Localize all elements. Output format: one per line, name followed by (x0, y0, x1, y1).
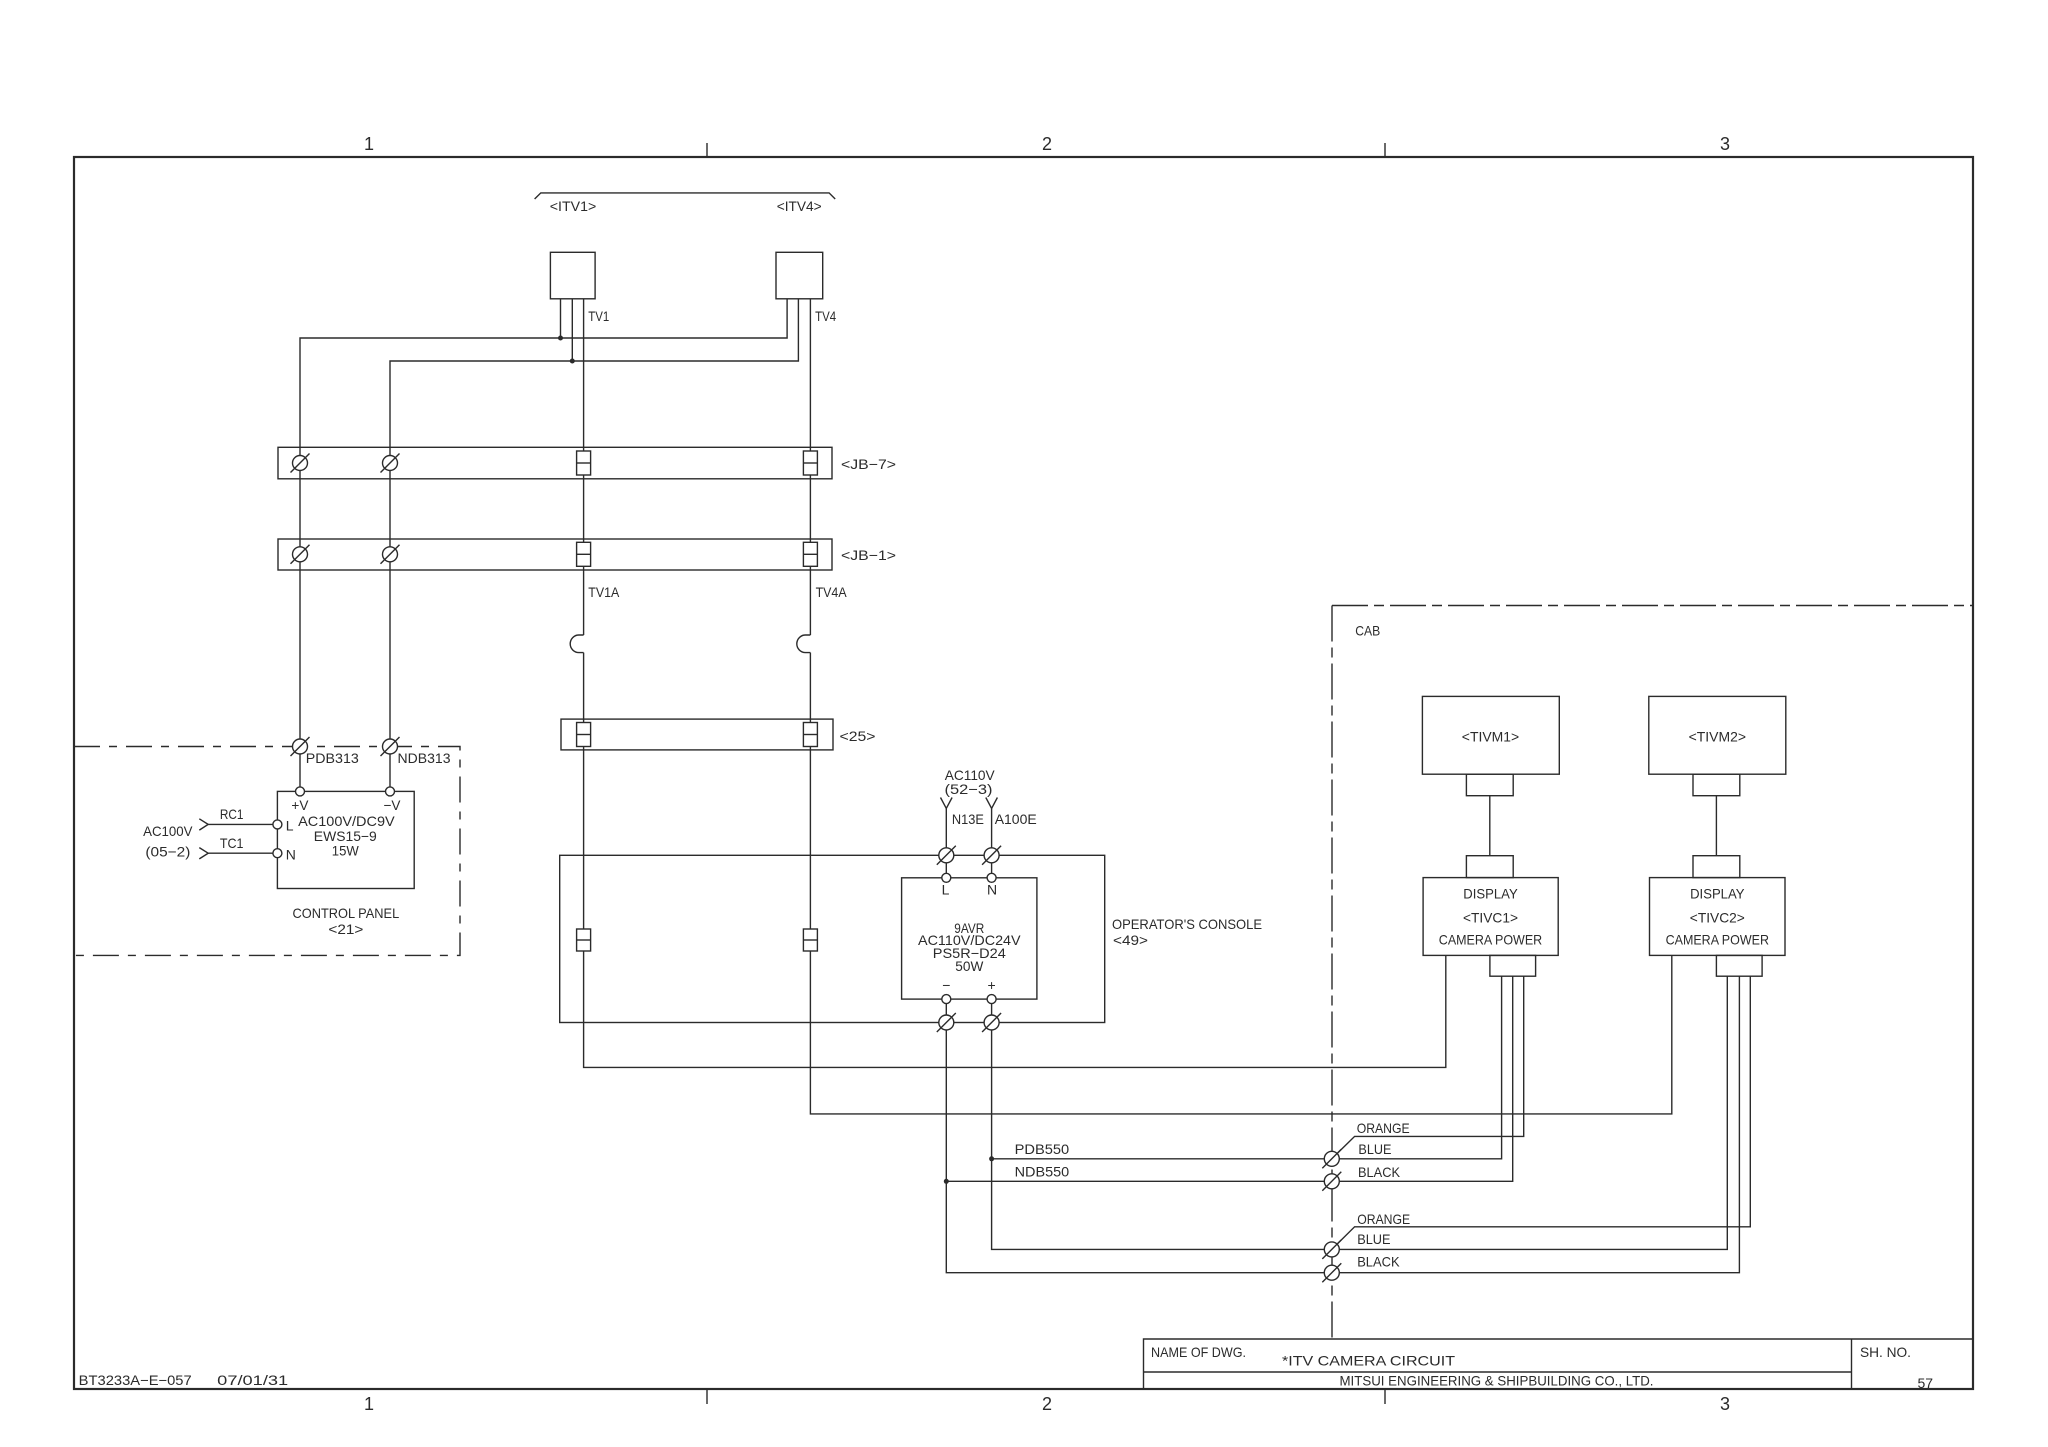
svg-text:RC1: RC1 (220, 806, 244, 822)
terminal (gland) console top N (982, 846, 1001, 865)
connector stub TIVC2 top (1693, 856, 1740, 878)
svg-text:PDB313: PDB313 (306, 750, 359, 766)
wire bus PDB: TV4 lead1 across to left column down to EWS +V (300, 299, 787, 787)
svg-text:TV4A: TV4A (816, 584, 848, 600)
cable loop symbol on TV1A wire (570, 635, 583, 653)
svg-text:50W: 50W (955, 958, 984, 974)
CAB enclosure boundary (dash-dot) (1332, 606, 1972, 1340)
svg-text:TV4: TV4 (815, 308, 836, 324)
svg-text:L: L (942, 882, 950, 898)
svg-text:CAMERA POWER: CAMERA POWER (1439, 932, 1542, 948)
wire NDB550 (946, 1180, 1332, 1182)
connector stub TIVM2 (1693, 774, 1740, 796)
svg-text:BT3233A−E−057: BT3233A−E−057 (79, 1372, 192, 1388)
terminal (gland) JB-7 t2 (381, 454, 400, 473)
junction node PDB550 tap (989, 1156, 994, 1161)
wire PDB550 (992, 1158, 1332, 1160)
arrow feed L (941, 798, 953, 809)
terminal (gland) JB-1 t1 (291, 545, 310, 564)
svg-text:NDB313: NDB313 (398, 750, 451, 766)
svg-text:N: N (987, 882, 997, 898)
svg-text:2: 2 (1042, 134, 1052, 154)
svg-text:+: + (988, 977, 996, 993)
svg-text:CONTROL PANEL: CONTROL PANEL (293, 905, 400, 921)
svg-text:BLUE: BLUE (1357, 1231, 1390, 1247)
operator's console enclosure (560, 855, 1105, 1022)
wire TV4 signal column TV4/TV4A down to console (809, 299, 811, 635)
title block (1144, 1339, 1974, 1389)
svg-text:<TIVC1>: <TIVC1> (1463, 910, 1518, 926)
control panel enclosure (dashed) (74, 747, 460, 956)
terminal (gland) PDB313 (291, 737, 310, 756)
terminal (gland) console top L (937, 846, 956, 865)
power supply U1 EWS15-9 (277, 791, 414, 888)
svg-text:BLACK: BLACK (1357, 1254, 1400, 1270)
svg-text:A100E: A100E (995, 811, 1037, 827)
wire 9AVR plus output down (992, 1004, 1332, 1250)
wire TIVM2 to TIVC2 (1715, 796, 1717, 856)
wire TIVM1 to TIVC1 (1489, 796, 1491, 856)
pin +V of EWS (296, 787, 305, 796)
wire TV1 camera lead 2 to node (571, 299, 573, 361)
terminal (gland) CAB pass 2 black (1322, 1263, 1341, 1282)
wire TV4A continues to console then right to TIVC2 (810, 653, 1671, 1114)
connector stub TIVC2 bottom (1716, 955, 1762, 976)
junction box JB-1 (278, 539, 832, 570)
wire TC1 into N (208, 852, 273, 854)
svg-text:TC1: TC1 (220, 835, 244, 851)
power supply U2 9AVR PS5R-D24 (902, 878, 1037, 999)
connector stub TIVC1 bottom (1490, 955, 1536, 976)
wire TIVC2 power orange (1332, 976, 1751, 1249)
svg-text:3: 3 (1720, 134, 1730, 154)
svg-text:DISPLAY: DISPLAY (1463, 886, 1518, 902)
terminal (gland) CAB pass 2 blue (1322, 1240, 1341, 1259)
pin L of EWS (273, 820, 282, 829)
svg-text:(05−2): (05−2) (145, 844, 190, 860)
monitor TIVM2 (1649, 696, 1786, 774)
camera TV1 (550, 252, 595, 298)
wire 9AVR minus output down (946, 1004, 1332, 1273)
wire TIVC1 power black (1332, 976, 1513, 1181)
terminal (gland) NDB313 (381, 737, 400, 756)
svg-text:SH. NO.: SH. NO. (1860, 1344, 1911, 1360)
svg-text:N: N (286, 847, 296, 863)
brace over ITV cameras (535, 193, 836, 199)
svg-text:NAME OF DWG.: NAME OF DWG. (1151, 1344, 1246, 1360)
svg-text:OPERATOR'S CONSOLE: OPERATOR'S CONSOLE (1112, 916, 1262, 932)
terminal block 25 t2 (803, 723, 817, 747)
svg-text:PDB550: PDB550 (1015, 1141, 1070, 1157)
wire RC1 into L (208, 823, 273, 825)
svg-text:57: 57 (1918, 1375, 1934, 1391)
svg-text:N13E: N13E (952, 811, 984, 827)
terminal block JB-1 t3 (577, 542, 591, 566)
pin N of EWS (273, 849, 282, 858)
svg-text:(52−3): (52−3) (945, 781, 993, 797)
junction box JB-7 (278, 447, 832, 479)
wire TV1 camera lead 1 to node (560, 299, 562, 338)
svg-text:<JB−1>: <JB−1> (841, 547, 896, 563)
wire AC110V N lead down to 9AVR (991, 808, 993, 873)
svg-text:*ITV CAMERA CIRCUIT: *ITV CAMERA CIRCUIT (1282, 1353, 1456, 1369)
svg-text:3: 3 (1720, 1394, 1730, 1414)
terminal block console TV1A (577, 929, 591, 951)
svg-text:<TIVM1>: <TIVM1> (1462, 729, 1519, 745)
svg-text:−V: −V (384, 797, 402, 813)
terminal block console TV4A (803, 929, 817, 951)
terminal (gland) CAB pass 1 black (1322, 1172, 1341, 1191)
svg-text:TV1: TV1 (588, 308, 609, 324)
svg-text:AC100V: AC100V (143, 823, 193, 839)
sheet frame and zone ruler (74, 157, 1973, 1389)
pin -V of EWS (386, 787, 395, 796)
arrow chevron RC1 (199, 819, 208, 830)
svg-text:<ITV1>: <ITV1> (550, 198, 597, 214)
svg-text:<TIVC2>: <TIVC2> (1690, 910, 1745, 926)
wire AC110V L lead down to 9AVR (945, 808, 947, 873)
svg-text:<TIVM2>: <TIVM2> (1689, 729, 1746, 745)
junction box 25 (561, 719, 833, 750)
terminal (gland) console bottom plus (982, 1013, 1001, 1032)
svg-text:BLUE: BLUE (1358, 1141, 1391, 1157)
junction node on TV1 lead1 (558, 336, 563, 341)
svg-text:CAB: CAB (1355, 623, 1380, 639)
pin minus of 9AVR (942, 995, 951, 1004)
svg-text:<21>: <21> (328, 921, 363, 937)
svg-text:BLACK: BLACK (1358, 1164, 1401, 1180)
wire TV1 signal column TV1/TV1A down to console (583, 299, 585, 635)
svg-text:ORANGE: ORANGE (1357, 1120, 1410, 1136)
svg-text:TV1A: TV1A (588, 584, 620, 600)
svg-text:AC100V/DC9V: AC100V/DC9V (298, 813, 395, 829)
wire TIVC2 power blue (1332, 976, 1728, 1249)
svg-text:ORANGE: ORANGE (1357, 1211, 1410, 1227)
cable loop symbol on TV4A wire (797, 635, 811, 653)
terminal block 25 t1 (577, 723, 591, 747)
wire bus NDB: TV4 lead2 across to second column down to EWS -V (390, 299, 798, 787)
svg-text:+V: +V (291, 797, 309, 813)
connector stub TIVC1 top (1466, 856, 1513, 878)
display unit TIVC2 (1650, 878, 1786, 956)
pin N of 9AVR (987, 873, 996, 882)
pin L of 9AVR (942, 873, 951, 882)
terminal (gland) CAB pass 1 blue (1322, 1149, 1341, 1168)
svg-text:MITSUI ENGINEERING & SHIPBUILD: MITSUI ENGINEERING & SHIPBUILDING CO., L… (1340, 1373, 1654, 1389)
svg-text:CAMERA POWER: CAMERA POWER (1666, 932, 1769, 948)
terminal block JB-7 t3 (577, 451, 591, 475)
svg-text:2: 2 (1042, 1394, 1052, 1414)
terminal (gland) JB-1 t2 (381, 545, 400, 564)
svg-text:<25>: <25> (840, 728, 876, 744)
svg-text:NDB550: NDB550 (1015, 1164, 1070, 1180)
junction node on TV1 lead2 (570, 359, 575, 364)
connector stub TIVM1 (1466, 774, 1513, 796)
svg-text:<ITV4>: <ITV4> (777, 198, 822, 214)
arrow chevron TC1 (199, 848, 208, 859)
monitor TIVM1 (1422, 696, 1559, 774)
svg-text:DISPLAY: DISPLAY (1690, 886, 1745, 902)
terminal block JB-7 t4 (803, 451, 817, 475)
wire TV1A continues to console then right to TIVC1 (584, 653, 1446, 1068)
display unit TIVC1 (1423, 878, 1558, 956)
junction node NDB550 tap (944, 1179, 949, 1184)
wire TIVC1 power orange (1332, 976, 1524, 1159)
wire TIVC2 power black (1332, 976, 1740, 1272)
svg-text:07/01/31: 07/01/31 (217, 1372, 288, 1388)
camera TV4 (776, 252, 823, 298)
terminal block JB-1 t4 (803, 542, 817, 566)
svg-text:1: 1 (364, 134, 374, 154)
svg-text:<JB−7>: <JB−7> (841, 456, 896, 472)
svg-text:1: 1 (364, 1394, 374, 1414)
svg-text:<49>: <49> (1113, 932, 1148, 948)
svg-text:15W: 15W (332, 843, 360, 859)
pin plus of 9AVR (987, 995, 996, 1004)
terminal (gland) JB-7 t1 (291, 454, 310, 473)
svg-text:L: L (286, 818, 294, 834)
terminal (gland) console bottom minus (937, 1013, 956, 1032)
arrow feed N (986, 798, 998, 809)
svg-text:−: − (942, 977, 950, 993)
wire TIVC1 power blue (1332, 976, 1502, 1159)
